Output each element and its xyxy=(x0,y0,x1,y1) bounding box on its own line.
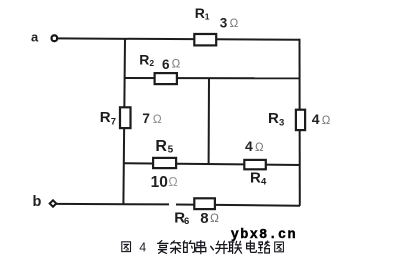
hanzi 电 xyxy=(247,241,257,253)
label R3 xyxy=(268,110,284,128)
svg-text:4: 4 xyxy=(139,240,146,254)
resistor R6 xyxy=(194,198,215,209)
hanzi 路 xyxy=(258,241,269,253)
label R2 xyxy=(139,52,154,68)
hanzi 杂 xyxy=(170,241,180,254)
svg-text:6: 6 xyxy=(162,57,170,72)
svg-text:R: R xyxy=(100,109,111,126)
svg-text:1: 1 xyxy=(205,11,210,21)
resistor R2 xyxy=(155,73,177,84)
svg-text:Ω: Ω xyxy=(210,211,219,225)
node b (terminal) xyxy=(50,200,57,206)
svg-text:6: 6 xyxy=(184,216,189,227)
svg-text:a: a xyxy=(31,30,39,45)
svg-text:4: 4 xyxy=(312,111,320,127)
hanzi 并 xyxy=(216,241,228,253)
svg-text:Ω: Ω xyxy=(153,112,162,126)
svg-text:Ω: Ω xyxy=(230,18,239,30)
svg-text:8: 8 xyxy=(200,210,208,227)
svg-text:2: 2 xyxy=(149,58,154,68)
label R5 xyxy=(155,138,173,155)
wire: bottom rail right segment through R6 xyxy=(176,205,300,206)
value 6 ohm (R2) xyxy=(162,57,181,72)
wire: middle horizontal row through R5 and R4 xyxy=(124,163,300,165)
value 4 ohm (R4) xyxy=(245,138,264,154)
svg-text:Ω: Ω xyxy=(322,115,331,127)
caption digit 4 xyxy=(139,240,146,254)
svg-text:7: 7 xyxy=(111,116,116,127)
svg-text:10: 10 xyxy=(151,174,168,191)
label R1 xyxy=(195,5,210,21)
svg-text:Ω: Ω xyxy=(172,58,181,70)
svg-text:5: 5 xyxy=(168,145,174,156)
svg-text:R: R xyxy=(195,5,205,21)
svg-text:ybx8.cn: ybx8.cn xyxy=(231,228,297,243)
hanzi 的 xyxy=(183,241,194,253)
resistor R4 xyxy=(244,160,265,169)
svg-text:Ω: Ω xyxy=(255,142,264,154)
hanzi 复 xyxy=(158,241,168,254)
resistor R5 xyxy=(153,158,176,168)
resistor R7 xyxy=(120,107,131,128)
svg-text:R: R xyxy=(155,138,167,155)
wire: right rail (vertical through R3) xyxy=(299,39,301,206)
label R4 xyxy=(250,170,267,188)
svg-text:Ω: Ω xyxy=(168,175,177,189)
caption: 图 4 复杂的串、并联电路图 xyxy=(122,240,284,254)
wire: top rail from node a to right rail xyxy=(57,38,300,39)
hanzi 图 (2nd) xyxy=(275,242,284,252)
value 7 ohm (R7) xyxy=(142,111,161,126)
wire: bottom rail left segment from node b xyxy=(57,203,170,206)
svg-text:4: 4 xyxy=(245,138,253,154)
label R6 xyxy=(174,210,189,227)
punctuation 、 xyxy=(211,246,214,249)
hanzi 联 xyxy=(228,241,241,253)
wire: left rail (vertical through R7) xyxy=(123,39,125,205)
svg-text:R: R xyxy=(268,110,279,127)
svg-text:b: b xyxy=(33,194,42,210)
wire: R2 branch horizontal xyxy=(124,77,300,79)
value 10 ohm (R5) xyxy=(151,174,178,191)
svg-text:3: 3 xyxy=(279,118,284,129)
node a (terminal) xyxy=(52,35,58,41)
wire: middle vertical from R2 branch down to R5/R4 row xyxy=(208,78,210,165)
hanzi 串 xyxy=(196,241,206,254)
svg-text:7: 7 xyxy=(142,111,150,126)
resistor R3 xyxy=(296,110,305,130)
resistor R1 xyxy=(194,34,216,45)
svg-text:3: 3 xyxy=(220,15,228,30)
svg-text:R: R xyxy=(250,170,261,187)
label R7 xyxy=(100,109,116,127)
value 8 ohm (R6) xyxy=(200,210,219,227)
svg-text:4: 4 xyxy=(261,177,267,188)
hanzi 图 (1st) xyxy=(122,242,131,252)
svg-text:R: R xyxy=(139,52,149,68)
value 4 ohm (R3) xyxy=(312,111,331,127)
value 3 ohm (R1) xyxy=(220,15,239,30)
